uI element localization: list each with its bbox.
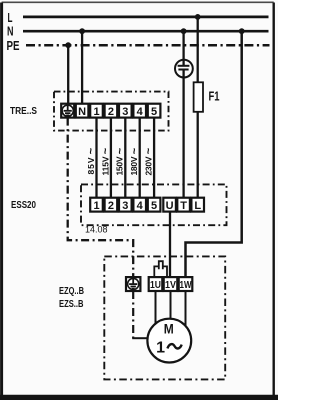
svg-text:EZQ..B: EZQ..B xyxy=(59,286,84,297)
speed controller ESS20 box (dash-dot outline) xyxy=(81,184,227,225)
wire fuse to ESS20 terminal L xyxy=(197,112,199,198)
TRE terminal 1 xyxy=(90,104,103,118)
svg-text:N: N xyxy=(78,106,86,118)
ESS terminal 1 xyxy=(90,198,103,212)
svg-text:1: 1 xyxy=(93,200,99,212)
wire lamp to ESS20 terminal T xyxy=(182,70,184,199)
wire rail L xyxy=(23,16,269,19)
svg-text:~: ~ xyxy=(86,147,98,154)
node junction N / right drop xyxy=(239,28,245,34)
TRE terminal N xyxy=(76,104,89,118)
ESS terminal 5 xyxy=(148,198,161,212)
TRE earth terminal xyxy=(61,104,74,118)
ESS terminal 3 xyxy=(119,198,132,212)
wire TRE 1 to ESS 1 xyxy=(95,118,97,198)
svg-text:5: 5 xyxy=(151,106,157,118)
svg-text:~: ~ xyxy=(143,147,155,154)
fuse F1 xyxy=(194,82,203,112)
svg-text:N: N xyxy=(7,25,14,39)
wire 1U to motor xyxy=(155,291,157,324)
wire motor earth dash-dot down xyxy=(132,291,134,338)
svg-text:2: 2 xyxy=(108,200,114,212)
svg-text:1: 1 xyxy=(156,339,165,356)
label 180V ~ xyxy=(129,147,141,175)
svg-text:ESS20: ESS20 xyxy=(11,199,36,211)
node junction L / fuse drop xyxy=(195,14,201,20)
svg-text:EZS..B: EZS..B xyxy=(59,299,84,310)
wire ESS U to motor 1V xyxy=(169,212,171,278)
ESS terminal T xyxy=(177,198,190,212)
svg-text:M: M xyxy=(164,321,174,337)
wire 1V to motor xyxy=(170,291,172,319)
svg-text:T: T xyxy=(180,200,187,212)
svg-text:PE: PE xyxy=(7,39,20,53)
wire TRE 2 to ESS 2 xyxy=(110,118,112,198)
svg-text:~: ~ xyxy=(114,147,126,154)
label 230V ~ xyxy=(143,147,155,175)
svg-text:14.08: 14.08 xyxy=(85,225,108,235)
label 150V ~ xyxy=(114,147,126,175)
svg-text:1W: 1W xyxy=(180,280,192,291)
wire rail PE (dash-dot) xyxy=(26,44,270,47)
motor terminal 1W xyxy=(179,277,193,291)
node junction PE / earth drop xyxy=(65,42,71,48)
motor EZQ..B / EZS..B box (dash-dot outline) xyxy=(104,256,225,379)
wire TRE 4 to ESS 4 xyxy=(139,118,141,198)
TRE terminal 2 xyxy=(105,104,118,118)
TRE terminal 4 xyxy=(133,104,146,118)
svg-text:180V: 180V xyxy=(129,156,139,175)
TRE terminal 3 xyxy=(119,104,132,118)
ESS terminal 2 xyxy=(105,198,118,212)
svg-text:~: ~ xyxy=(100,147,112,154)
svg-text:3: 3 xyxy=(122,200,128,212)
svg-text:5: 5 xyxy=(151,200,157,212)
label 85V ~ xyxy=(86,147,98,174)
node junction N / N drop xyxy=(79,28,85,34)
svg-text:F1: F1 xyxy=(209,90,220,104)
ESS terminal L xyxy=(191,198,204,212)
wire rail N xyxy=(23,30,269,33)
svg-text:2: 2 xyxy=(108,106,114,118)
wire L drop to fuse xyxy=(197,17,199,83)
wire PE drop to TRE earth terminal xyxy=(67,45,69,104)
wire motor earth horizontal to motor body xyxy=(132,337,147,339)
svg-text:L: L xyxy=(194,200,201,212)
svg-text:TRE..S: TRE..S xyxy=(10,105,37,117)
svg-text:3: 3 xyxy=(122,106,128,118)
svg-text:~: ~ xyxy=(129,147,141,154)
svg-text:1V: 1V xyxy=(165,280,176,291)
svg-text:U: U xyxy=(166,200,174,212)
lamp H1 (neon indicator) xyxy=(175,60,193,78)
svg-text:L: L xyxy=(8,11,13,25)
svg-text:85V: 85V xyxy=(86,157,96,174)
wire N right drop xyxy=(186,31,242,277)
wire PE dash-dot run: TRE earth down, right, down to motor earth xyxy=(68,118,134,278)
TRE terminal 5 xyxy=(148,104,161,118)
svg-text:230V: 230V xyxy=(144,156,154,175)
motor terminal 1U xyxy=(149,277,163,291)
motor tilde xyxy=(167,344,181,348)
svg-text:150V: 150V xyxy=(115,156,125,175)
svg-text:1: 1 xyxy=(93,106,99,118)
wire N drop to TRE terminal N xyxy=(81,31,83,104)
motor terminal 1V xyxy=(164,277,178,291)
wire TRE 5 to ESS 5 xyxy=(153,118,155,198)
svg-text:115V: 115V xyxy=(100,156,110,175)
ESS terminal U xyxy=(163,198,176,212)
wire TRE 3 to ESS 3 xyxy=(124,118,126,198)
label 115V ~ xyxy=(100,147,112,175)
ESS terminal 4 xyxy=(133,198,146,212)
thermal contact symbol (TB) xyxy=(154,261,167,277)
wire lamp drop from N xyxy=(182,31,184,65)
motor M1 circle xyxy=(147,319,191,363)
thermostat TRE..S box (dash-dot outline) xyxy=(54,92,169,131)
node junction N / lamp drop xyxy=(181,28,187,34)
motor earth terminal xyxy=(126,277,140,291)
svg-text:4: 4 xyxy=(137,200,144,212)
svg-text:4: 4 xyxy=(137,106,144,118)
wire 1W to motor xyxy=(185,291,187,327)
svg-text:1U: 1U xyxy=(150,280,161,291)
